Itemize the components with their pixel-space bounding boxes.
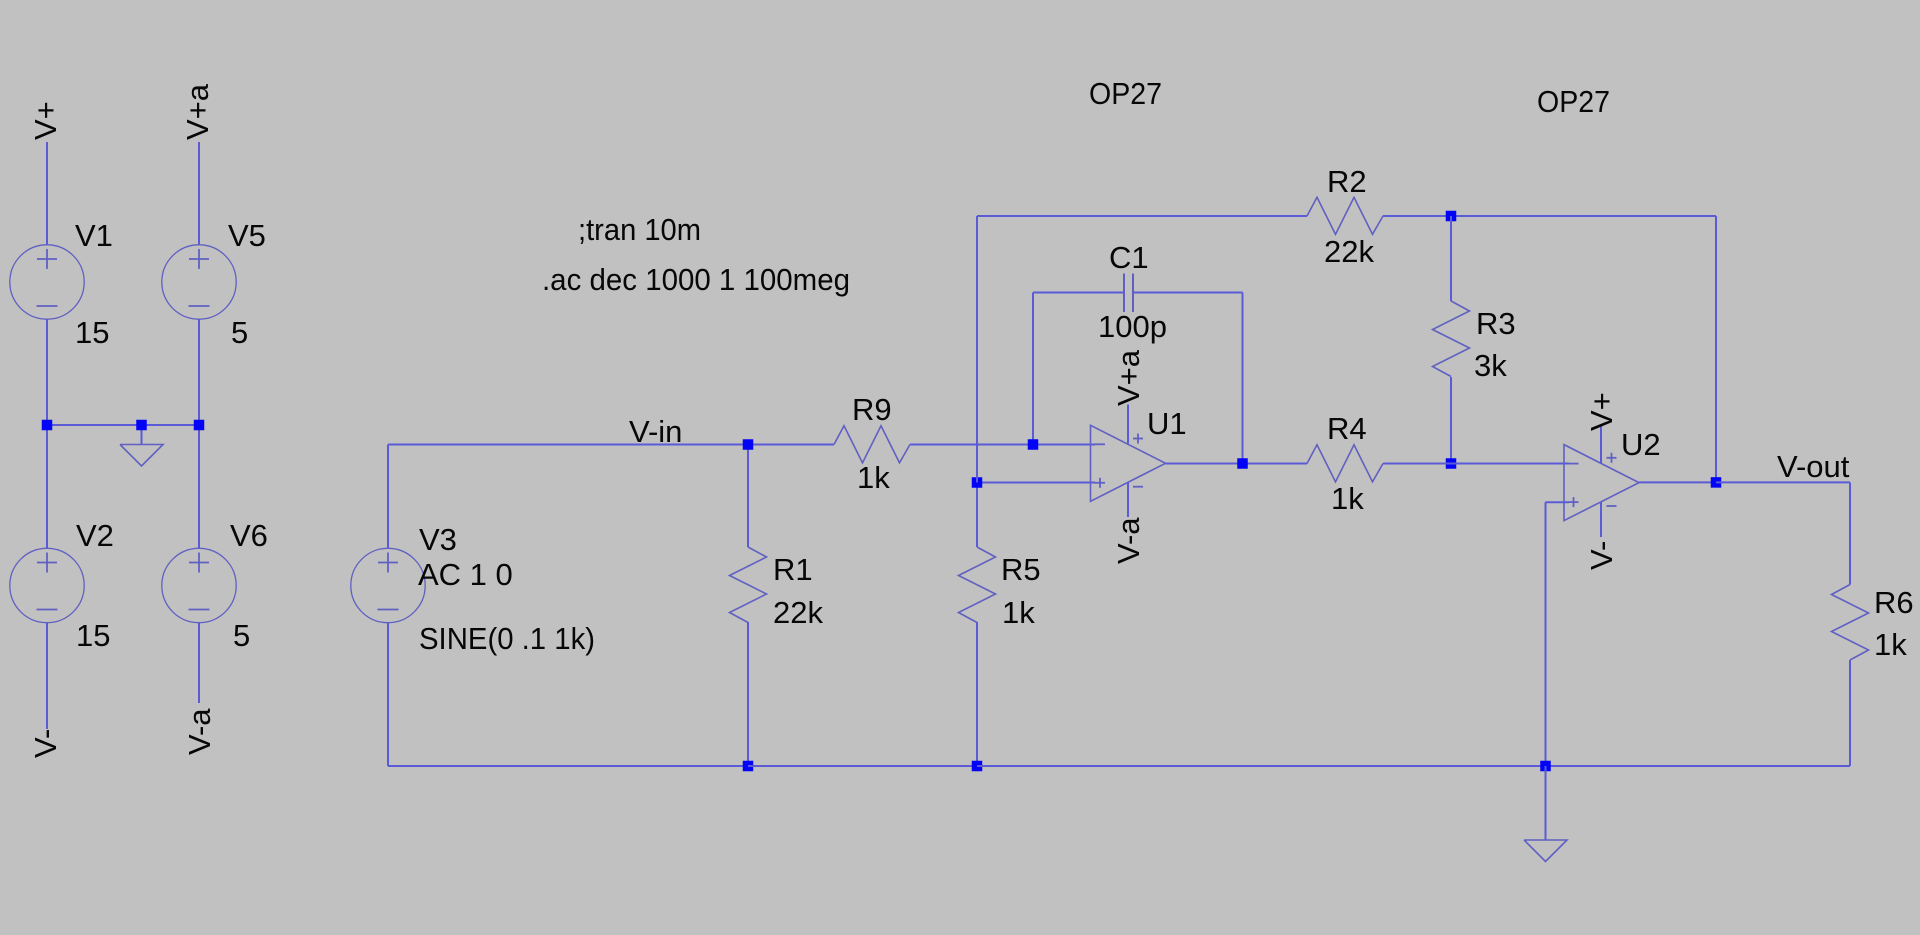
wire V3 top vertical: [387, 445, 389, 549]
wire C1 right lead: [1133, 292, 1243, 294]
wire U2 noninverting feedback vertical: [1545, 502, 1547, 766]
svg-text:AC 1 0: AC 1 0: [418, 557, 513, 592]
junction V1 bottom: [42, 420, 53, 431]
svg-text:V-out: V-out: [1777, 449, 1850, 484]
wire U1 V+a power stem: [1127, 405, 1129, 444]
resistor R2: [1307, 197, 1383, 234]
junction V5 bottom: [194, 420, 205, 431]
svg-text:15: 15: [76, 618, 110, 653]
voltage source V2 symbol: [10, 548, 84, 622]
resistor R6: [1832, 585, 1869, 661]
wire ground stub mid rail: [141, 425, 143, 445]
svg-text:V+: V+: [1584, 392, 1619, 431]
wire ground stem bottom: [1545, 766, 1547, 840]
voltage source V5 symbol: [162, 245, 236, 319]
wire U2 noninverting feedback horizontal: [1546, 501, 1570, 503]
junction V-in R1 tap: [743, 439, 754, 450]
svg-text:V-a: V-a: [182, 708, 217, 755]
wire U2 V- power stem: [1600, 502, 1602, 538]
svg-text:5: 5: [233, 618, 250, 653]
svg-text:5: 5: [231, 315, 248, 350]
voltage source V6 symbol: [162, 548, 236, 622]
svg-text:V6: V6: [230, 518, 268, 553]
wire feedback vertical to noninverting input: [976, 216, 978, 483]
wire C1 right vertical to U1 output: [1242, 293, 1244, 464]
capacitor C1: [1124, 274, 1133, 313]
wire feedback top horizontal to R2: [977, 215, 1307, 217]
wire R5 bottom lead: [976, 622, 978, 766]
wire R9 to C1 tap: [910, 444, 1033, 446]
svg-text:.ac dec 1000 1 100meg: .ac dec 1000 1 100meg: [542, 262, 850, 297]
svg-text:V1: V1: [75, 218, 113, 253]
svg-text:V+a: V+a: [1111, 349, 1146, 406]
junction bottom rail R5: [972, 761, 983, 772]
resistor R9: [834, 426, 910, 463]
wire U1 output to R4: [1243, 463, 1308, 465]
wire V-in horizontal V3 to R1 tap: [388, 444, 748, 446]
ground symbol bottom: [1524, 840, 1567, 862]
wire V1/V2 junction to V2 top: [46, 425, 48, 548]
wire R2 right to R3 junction: [1383, 215, 1451, 217]
svg-text:SINE(0 .1 1k): SINE(0 .1 1k): [419, 621, 595, 656]
svg-text:R9: R9: [852, 392, 892, 427]
wire supply mid rail horizontal: [47, 424, 199, 426]
svg-text:22k: 22k: [1324, 234, 1374, 269]
wire bottom rail R1 to R5: [748, 765, 977, 767]
svg-text:V-: V-: [28, 729, 63, 758]
resistor R4: [1307, 445, 1383, 482]
ground symbol left: [120, 445, 163, 467]
junction U1 noninverting tap: [972, 477, 983, 488]
wire R1 top lead: [747, 445, 749, 548]
wire mid rail to V6 top: [198, 425, 200, 548]
svg-text:R6: R6: [1874, 585, 1914, 620]
svg-text:1k: 1k: [1874, 627, 1907, 662]
svg-text:V-: V-: [1584, 541, 1619, 570]
svg-text:22k: 22k: [773, 595, 823, 630]
svg-text:1k: 1k: [1002, 595, 1035, 630]
wire R3 bottom lead: [1450, 377, 1452, 464]
wire bottom rail R5 to ground tap: [977, 765, 1546, 767]
wire C1 tap to U1 inverting input: [1033, 444, 1095, 446]
wire bottom rail ground tap to R6: [1546, 765, 1851, 767]
svg-text:U1: U1: [1147, 406, 1187, 441]
junction R2 R3 node: [1446, 211, 1457, 222]
resistor R5: [959, 547, 996, 623]
svg-text:1k: 1k: [857, 460, 890, 495]
wire R3 top lead: [1450, 216, 1452, 301]
svg-text:OP27: OP27: [1089, 76, 1162, 111]
wire V1 bottom to supply rail: [46, 319, 48, 425]
voltage source V1 symbol: [10, 245, 84, 319]
wire V3 bottom vertical: [387, 623, 389, 766]
junction C1 left tap: [1028, 439, 1039, 450]
wire U1 noninverting input horizontal: [977, 482, 1095, 484]
wire V-in R1 tap to R9: [748, 444, 834, 446]
svg-text:R4: R4: [1327, 411, 1367, 446]
wire R4 right to U2 inverting input: [1383, 463, 1451, 465]
wire bottom rail V3 to R1: [388, 765, 748, 767]
wire V-out corner down to R6: [1849, 482, 1851, 584]
svg-text:U2: U2: [1621, 427, 1661, 462]
svg-text:V+: V+: [28, 101, 63, 140]
svg-text:C1: C1: [1109, 240, 1149, 275]
wire R5 top lead: [976, 483, 978, 548]
voltage source V3 symbol: [351, 548, 425, 622]
junction feedback on U2 output: [1711, 477, 1722, 488]
wire V5 bottom to mid rail: [198, 319, 200, 425]
junction bottom rail R1: [743, 761, 754, 772]
svg-text:OP27: OP27: [1537, 84, 1610, 119]
junction R3 R4 node: [1446, 458, 1457, 469]
svg-text:R3: R3: [1476, 306, 1516, 341]
wire R6 bottom lead: [1849, 660, 1851, 766]
svg-text:V+a: V+a: [180, 83, 215, 140]
svg-text:V2: V2: [76, 518, 114, 553]
wire R2 node to output corner: [1451, 215, 1716, 217]
svg-text:R2: R2: [1327, 164, 1367, 199]
op-amp U2: [1564, 445, 1639, 521]
wire V6 bottom to V-a label: [198, 622, 200, 703]
junction bottom rail ground tap: [1540, 761, 1551, 772]
wire V+a stub to V5: [198, 142, 200, 245]
svg-text:;tran 10m: ;tran 10m: [578, 212, 701, 247]
op-amp U1: [1091, 425, 1166, 501]
svg-text:V5: V5: [228, 218, 266, 253]
wire U2 output: [1639, 481, 1716, 483]
wire C1 left tap vertical: [1032, 293, 1034, 445]
wire C1 left lead: [1033, 292, 1124, 294]
wire V2 bottom to V- label: [46, 622, 48, 729]
junction C1 right on output: [1237, 458, 1248, 469]
wire U1 V-a power stem: [1127, 482, 1129, 517]
svg-text:R5: R5: [1001, 552, 1041, 587]
svg-text:100p: 100p: [1098, 309, 1167, 344]
resistor R3: [1433, 301, 1470, 377]
wire U2 V+ power stem: [1600, 426, 1602, 463]
svg-text:V3: V3: [419, 522, 457, 557]
junction ground tap: [136, 420, 147, 431]
wire R1 bottom lead: [747, 622, 749, 766]
svg-text:R1: R1: [773, 552, 813, 587]
wire feedback right vertical: [1715, 216, 1717, 482]
svg-text:15: 15: [75, 315, 109, 350]
wire V+ stub to V1: [46, 142, 48, 245]
svg-text:3k: 3k: [1474, 348, 1507, 383]
svg-text:1k: 1k: [1331, 481, 1364, 516]
wire U1 output: [1166, 463, 1243, 465]
resistor R1: [730, 547, 767, 623]
svg-text:V-a: V-a: [1111, 517, 1146, 564]
wire V-out horizontal: [1716, 481, 1850, 483]
